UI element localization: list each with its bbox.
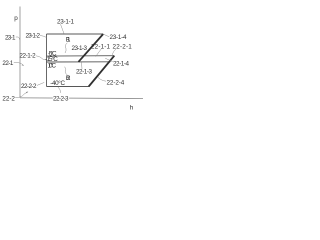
svg-text:22-1-3: 22-1-3 — [76, 68, 92, 75]
svg-text:23-1-4: 23-1-4 — [110, 34, 127, 41]
svg-text:23-1-2: 23-1-2 — [26, 33, 41, 40]
svg-text:22-1: 22-1 — [2, 60, 13, 67]
leader 22-1 arrow — [14, 63, 24, 66]
boundary line -5C / top edge of band 22-1 — [47, 55, 115, 57]
regions 22-1/22-2 slanted right edge — [89, 56, 115, 87]
leader 22-2-1 — [112, 49, 116, 55]
leader 23-1-1 — [61, 24, 65, 33]
leader 22-1-4 — [105, 58, 113, 62]
svg-text:22-1-2: 22-1-2 — [19, 53, 36, 60]
leader 22-2-4 — [98, 77, 106, 81]
leader 22-1-2 — [36, 56, 46, 60]
leader 23-1 — [16, 37, 20, 40]
leader 23-1-2 — [40, 36, 47, 38]
svg-text:22-2-2: 22-2-2 — [21, 83, 37, 90]
leader 22-2-2 — [37, 82, 44, 85]
region 23-1 slanted right edge — [79, 34, 104, 62]
leader 23-1-4 — [104, 34, 109, 36]
leader 22-1-1 — [96, 49, 102, 57]
svg-text:B2: B2 — [66, 75, 71, 82]
svg-text:22-1-4: 22-1-4 — [113, 61, 129, 68]
svg-text:-40°C: -40°C — [50, 79, 65, 87]
leader B1 — [65, 43, 67, 53]
boundary line / top edge of region 22-2 — [47, 61, 111, 63]
svg-text:23-1-1: 23-1-1 — [57, 18, 74, 25]
h axis — [20, 97, 143, 100]
leader 22-2-3 — [58, 87, 61, 93]
label 22-2-3 (white backing interrupts h axis) — [53, 95, 69, 101]
svg-text:10°C: 10°C — [48, 62, 57, 70]
leader 22-2 — [15, 92, 28, 98]
svg-text:22-2-4: 22-2-4 — [107, 80, 125, 87]
leader 22-1-3 — [81, 62, 84, 69]
leader B2 — [64, 67, 67, 75]
svg-text:p: p — [14, 15, 18, 22]
svg-text:22-2: 22-2 — [2, 95, 15, 102]
region 22-2 bottom edge — [47, 86, 90, 88]
svg-text:23-1: 23-1 — [5, 34, 16, 41]
svg-text:23-1-3: 23-1-3 — [72, 45, 88, 52]
svg-text:h: h — [130, 104, 134, 111]
svg-text:22-2-3: 22-2-3 — [53, 95, 69, 102]
region 23-1 top edge — [47, 33, 104, 35]
svg-text:B1: B1 — [66, 37, 71, 44]
region 23-1 left edge (shared vertical edge) — [46, 34, 48, 87]
p axis — [19, 7, 21, 98]
